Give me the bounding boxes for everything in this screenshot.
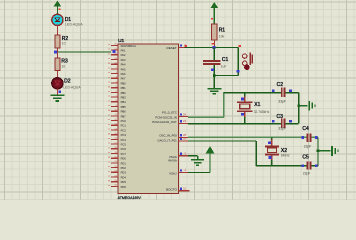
svg-text:C1: C1 (222, 57, 229, 63)
pin-end marker (red) at RESET (184, 45, 187, 47)
svg-text:PC7: PC7 (121, 152, 127, 156)
ground (below C1) (207, 88, 221, 93)
svg-text:1uF: 1uF (221, 65, 227, 69)
svg-text:PA4: PA4 (121, 63, 126, 67)
U1 left pin PD2 (pin 22) (111, 167, 118, 169)
svg-text:PC0: PC0 (121, 119, 127, 123)
capacitor C4 (307, 134, 312, 142)
U1 left pin PA6 (pin 2) (111, 73, 118, 75)
svg-text:33pF: 33pF (278, 99, 286, 103)
wire reset node to C1 (213, 48, 215, 61)
junction marker (blue) at button bottom (237, 70, 240, 73)
svg-text:8MHz: 8MHz (281, 154, 290, 158)
U1 left pin PB4 (pin 8) (111, 101, 118, 103)
svg-text:PA6: PA6 (121, 72, 126, 76)
U1 left pin PA3 (pin 43) (111, 59, 118, 61)
push button (reset) (243, 53, 253, 70)
svg-text:PB3: PB3 (121, 96, 127, 100)
svg-text:D2: D2 (64, 78, 71, 84)
svg-text:GACO_IT_P01: GACO_IT_P01 (157, 138, 177, 142)
wire D2 to ground (56, 89, 58, 96)
svg-text:LED-AQUA: LED-AQUA (63, 85, 81, 89)
svg-text:PB6: PB6 (121, 110, 127, 114)
wire top rail (XTAL1 net) (224, 92, 299, 94)
U1 left pin PA7 (pin 3) (111, 77, 118, 79)
U1 left pin PB6 (pin 10) (111, 110, 118, 112)
wire button bracket (237, 48, 239, 76)
svg-text:PD2: PD2 (121, 166, 127, 170)
svg-text:C3: C3 (277, 114, 284, 120)
junction markers (blue) C5 (302, 165, 305, 168)
wire D1 to R2 (56, 25, 58, 35)
svg-text:PG_0_STC: PG_0_STC (162, 110, 177, 114)
svg-text:OSC_IN_P00: OSC_IN_P00 (159, 134, 177, 138)
svg-text:R1: R1 (219, 27, 226, 33)
wire TOSC1 pin to C4 rail (188, 136, 318, 138)
wire right rail X2 group (317, 137, 319, 165)
svg-text:PD0: PD0 (121, 157, 127, 161)
junction marker (blue) at U1 pin PA1 (112, 50, 115, 53)
svg-text:PA5: PA5 (121, 67, 126, 71)
U1 left pin PA1 (pin 41) (111, 49, 118, 51)
U1 left pin PC0 (pin 12) (111, 120, 118, 122)
wire rail to ground stub X2 (318, 150, 331, 152)
junction reset node (blue) (213, 46, 216, 49)
ground (X1 group, sideways) (308, 101, 315, 111)
junction marker (blue) below D2 (58, 91, 60, 93)
power terminal VCC (mid right) (206, 146, 215, 172)
svg-text:WVSA: WVSA (168, 158, 177, 162)
U1 left pin PD3 (pin 23) (111, 171, 118, 173)
ground (VCM pin) (191, 156, 204, 166)
svg-text:10: 10 (62, 42, 66, 46)
svg-text:PB1: PB1 (121, 86, 127, 90)
U1 right pin (pin 31) (179, 190, 190, 192)
junction dot X2 rail (317, 149, 320, 152)
ground (X2 group, sideways) (331, 146, 338, 156)
svg-text:PA7: PA7 (121, 77, 126, 81)
svg-text:PD6: PD6 (121, 185, 127, 189)
wire TOSC2 pin right (188, 140, 256, 142)
wire VCM pin to ground (188, 155, 198, 157)
svg-text:PD4: PD4 (121, 175, 127, 179)
svg-text:23: 23 (183, 119, 186, 123)
svg-text:33pF: 33pF (278, 127, 286, 131)
svg-text:22pF: 22pF (304, 144, 312, 148)
wire RESET pin to button (185, 47, 239, 49)
U1 left pin PD1 (pin 21) (111, 162, 118, 164)
U1 left pin PC2 (pin 14) (111, 129, 118, 131)
U1 right pin (pin 28) (179, 136, 189, 138)
svg-text:PC1: PC1 (121, 124, 127, 128)
U1 left pin PA5 (pin 1) (111, 68, 118, 70)
svg-text:PA0/VMRCA: PA0/VMRCA (121, 44, 137, 48)
svg-text:28: 28 (183, 133, 186, 137)
junction markers (blue) C3 (272, 120, 275, 123)
capacitor C1 (203, 60, 221, 65)
pin-end marker (red) at button top (239, 45, 242, 47)
U1 left pin PB0 (pin 4) (111, 82, 118, 84)
svg-text:PA3: PA3 (121, 58, 126, 62)
svg-text:PA2: PA2 (121, 53, 126, 57)
junction markers (blue) C2 (272, 89, 275, 92)
wire junction to button bottom (214, 75, 238, 77)
svg-text:31: 31 (183, 187, 186, 191)
svg-text:29: 29 (183, 137, 186, 141)
U1 left pin PA2 (pin 42) (111, 54, 118, 56)
svg-text:10k: 10k (219, 35, 225, 39)
svg-text:PB7: PB7 (121, 114, 127, 118)
svg-text:PC5: PC5 (121, 143, 127, 147)
svg-text:32.768kHz: 32.768kHz (254, 110, 270, 114)
U1 left pin PC3 (pin 15) (111, 134, 118, 136)
U1 left pin PC7 (pin 19) (111, 153, 118, 155)
U1 left pin PB3 (pin 7) (111, 96, 118, 98)
svg-text:PC2: PC2 (121, 128, 127, 132)
svg-text:C5: C5 (302, 155, 309, 161)
junction node (blue) (54, 51, 57, 54)
svg-text:24: 24 (183, 112, 186, 116)
svg-text:VSAJ: VSAJ (169, 171, 177, 175)
U1 right pin (pin 4) (179, 172, 189, 174)
U1 left pin PB1 (pin 5) (111, 87, 118, 89)
resistor R2 (55, 35, 60, 48)
crystal X1 (237, 93, 253, 124)
svg-text:PA1: PA1 (121, 49, 126, 53)
svg-text:C2: C2 (277, 82, 284, 88)
power terminal VCC (above R1) (211, 2, 218, 24)
svg-text:PD1: PD1 (121, 161, 127, 165)
svg-text:BOCTO: BOCTO (166, 187, 177, 191)
svg-text:LED-AQUA: LED-AQUA (65, 23, 83, 27)
wire riser to top rail (223, 93, 225, 118)
wire TOSC2 drop (255, 141, 257, 166)
wire node to R3 (56, 52, 58, 58)
U1 left pin PD6 (pin 26) (111, 185, 118, 187)
capacitor C2 (281, 88, 285, 98)
svg-text:PC4: PC4 (121, 138, 127, 142)
svg-text:C4: C4 (302, 126, 309, 132)
U1 left pin PC6 (pin 18) (111, 148, 118, 150)
capacitor C3 (281, 119, 285, 129)
wire XTAL2 pin to C3 rail (188, 123, 299, 125)
svg-text:PCM-OSC32_IN: PCM-OSC32_IN (155, 115, 176, 119)
svg-text:RESET: RESET (166, 46, 176, 50)
U1 left pin PD0 (pin 20) (111, 157, 118, 159)
U1 right pin (pin 24) (179, 116, 189, 118)
junction marker (blue) on C1 wire (211, 69, 214, 72)
resistor R1 (212, 24, 217, 40)
U1 left pin PB2 (pin 6) (111, 91, 118, 93)
svg-text:PC3: PC3 (121, 133, 127, 137)
junction dot C1/button (213, 74, 216, 77)
U1 left pin PA0/VMRCA (pin 40) (111, 44, 118, 46)
svg-text:22pF: 22pF (303, 172, 311, 176)
svg-text:PD3: PD3 (121, 171, 127, 175)
wire XTAL1 pin to riser (188, 116, 224, 118)
resistor R3 (55, 58, 60, 71)
wire bottom rail (TOSC2 net) (256, 165, 318, 167)
pin-end marker (red) below R1 (212, 43, 214, 45)
U1 left pin PB5 (pin 9) (111, 106, 118, 108)
U1 left pin PA4 (pin 44) (111, 63, 118, 65)
LED D2 (52, 78, 63, 89)
power terminal VCC (top left) (54, 1, 61, 15)
svg-text:PB2: PB2 (121, 91, 127, 95)
LED D1 (52, 14, 63, 25)
IC U1 body (118, 44, 178, 194)
U1 left pin PC1 (pin 13) (111, 124, 118, 126)
U1 right pin (pin 9) (179, 47, 189, 49)
ground (below D2) (50, 95, 64, 101)
U1 left pin PD4 (pin 24) (111, 176, 118, 178)
crystal X2 (265, 137, 279, 165)
U1 left pin PC5 (pin 17) (111, 143, 118, 145)
capacitor C5 (307, 162, 312, 170)
wire right rail X1 group (298, 93, 300, 124)
junction dot X1 rail (297, 104, 300, 107)
svg-text:PC6: PC6 (121, 147, 127, 151)
junction markers (blue) C4 (302, 136, 305, 139)
svg-text:PB5: PB5 (121, 105, 127, 109)
svg-text:PB4: PB4 (121, 100, 127, 104)
U1 left pin PB7 (pin 11) (111, 115, 118, 117)
svg-text:PB0: PB0 (121, 81, 127, 85)
svg-text:10: 10 (61, 64, 65, 68)
svg-text:ATMEGA169V: ATMEGA169V (118, 196, 142, 200)
wire C1 to ground (213, 65, 215, 89)
wire R3 to D2 (56, 71, 58, 78)
svg-text:U1: U1 (118, 38, 124, 44)
svg-text:PD5: PD5 (121, 180, 127, 184)
U1 right pin (pin 29) (179, 140, 189, 142)
wire node to U1 pin PA1 (57, 51, 111, 53)
U1 left pin PC4 (pin 16) (111, 138, 118, 140)
svg-text:PCM-GAC32_OUT: PCM-GAC32_OUT (152, 120, 177, 124)
U1 right pin (pin 23) (179, 122, 189, 124)
U1 left pin PD5 (pin 25) (111, 181, 118, 183)
U1 right pin (pin 5) (179, 155, 189, 157)
wire R1 to reset node (213, 40, 215, 48)
wire R2 to node (56, 48, 58, 52)
wire VSM pin to power (188, 172, 210, 174)
wire rail to ground stub (299, 105, 308, 107)
svg-text:X1: X1 (254, 102, 260, 108)
